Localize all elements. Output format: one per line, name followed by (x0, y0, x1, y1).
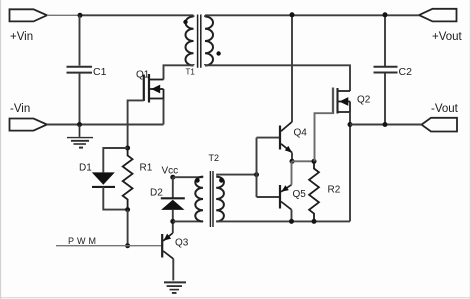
resistor R1 (123, 148, 133, 210)
node Vcc junction (170, 175, 175, 180)
node C2 bottom junction (383, 122, 388, 127)
wire bottom rail up to Q2 source (349, 125, 351, 222)
wire Q3 collector down to ground (172, 259, 174, 281)
wire Q1 gate to gate node (128, 100, 144, 148)
svg-text:T1: T1 (186, 68, 196, 77)
capacitor C1 (67, 67, 93, 73)
wire C1 bottom lead (79, 74, 81, 125)
wire Q5 emitter up (291, 161, 293, 185)
Q3 emitter arrow (164, 234, 172, 241)
transistor Q3 (PNP) (162, 233, 173, 259)
wire junction to T2 primary bottom (173, 220, 203, 222)
wire Q3 emitter up to D2 node (172, 221, 174, 233)
svg-text:D2: D2 (150, 188, 163, 199)
T1 secondary lead stubs (204, 15, 206, 65)
ground (Q3) (164, 282, 186, 294)
node D2/Q3/T2 junction (170, 219, 175, 224)
terminal +Vout (419, 9, 457, 22)
T2 primary polarity dot (195, 178, 200, 183)
wire to Q5 base (257, 196, 281, 198)
wire C2 bottom lead (384, 74, 386, 125)
transformer T2 secondary winding (216, 177, 224, 222)
wire -Vin rail (47, 124, 164, 126)
svg-text:+Vin: +Vin (10, 31, 33, 43)
T1 core (198, 15, 201, 68)
Q2 body-diode arrow (339, 97, 348, 106)
node C2 top junction (383, 12, 388, 17)
wire top rail left (junction to T1 primary) (80, 14, 194, 16)
wire Q1 source to -Vin rail (163, 99, 165, 125)
wire (469, 0, 471, 299)
wire base bus vertical (256, 138, 258, 197)
transformer T1 primary winding (185, 17, 193, 66)
transistor Q1 (MOSFET) (144, 74, 164, 103)
wire -Vout rail (350, 124, 422, 126)
wire Vcc down to D2 cathode (172, 177, 174, 197)
node junction -Vin/C1/ground (77, 122, 82, 127)
wire C2 top lead (384, 15, 386, 66)
transformer T2 primary winding (195, 177, 203, 222)
wire Q4 collector to +Vout rail (291, 15, 293, 123)
node Q4 collector junction top rail (290, 12, 295, 17)
T2 secondary polarity dot (219, 178, 224, 183)
wire gate node to D1 (103, 148, 127, 172)
Q5 emitter arrow (281, 185, 289, 192)
T1 primary lead stubs (193, 15, 195, 65)
wire Q5 collector to bottom rail (291, 210, 293, 222)
node Q4/Q5 emitter junction (290, 159, 295, 164)
node PWM junction (125, 243, 130, 248)
wire T1 secondary bottom to Q2 drain (205, 65, 350, 91)
node Q5 collector junction (289, 219, 294, 224)
wire Q2 gate down to R2 top (315, 113, 334, 161)
transistor Q2 (MOSFET) (333, 88, 350, 115)
node junction +Vin/C1 (78, 13, 83, 18)
wire to Q4 base (257, 137, 281, 139)
ground (input) (67, 125, 93, 149)
wire +Vin to top rail junction (47, 14, 80, 16)
transistor Q4 (NPN) (280, 122, 292, 153)
svg-text:PWM: PWM (68, 236, 99, 246)
svg-text:Vcc: Vcc (162, 166, 179, 177)
wire T1 primary bottom to Q1 drain (164, 65, 194, 79)
capacitor C2 (374, 67, 398, 73)
T1 primary polarity dot (183, 20, 187, 24)
T2 primary stubs (202, 177, 204, 222)
wire PWM input line (56, 245, 162, 247)
wire D2 anode to Q3 emitter node (172, 210, 174, 222)
wire Vcc to T2 primary top (173, 176, 203, 178)
node Q2 source junction (348, 122, 353, 127)
node R2 bottom junction (312, 219, 317, 224)
diode D1 (92, 172, 115, 184)
transformer T1 secondary winding (205, 17, 213, 66)
svg-text:C2: C2 (399, 66, 413, 78)
svg-text:-Vout: -Vout (431, 103, 459, 115)
terminal -Vout (422, 118, 458, 132)
svg-text:D1: D1 (79, 163, 92, 174)
wire T2 secondary top to base bus (216, 174, 256, 176)
wire C1 top lead (79, 15, 81, 65)
Q1 body-diode arrow (151, 85, 160, 94)
wire Q2 source to -Vout rail (349, 112, 351, 125)
svg-text:R1: R1 (140, 163, 153, 174)
terminal -Vin (10, 119, 48, 131)
terminal +Vin (10, 9, 48, 21)
svg-text:Q5: Q5 (293, 189, 307, 200)
svg-text:T2: T2 (209, 153, 220, 163)
T1 secondary polarity dot (216, 51, 220, 55)
svg-text:Q1: Q1 (136, 70, 150, 81)
wire D1 cathode to bottom junction (103, 187, 127, 210)
wire (0, 297, 471, 299)
svg-text:Q4: Q4 (294, 128, 308, 139)
node gate drive junction (125, 146, 130, 151)
wire (0, 0, 2, 299)
T2 core (210, 171, 213, 227)
Q4 emitter arrow (285, 146, 292, 153)
wire T2 secondary bottom rail (216, 220, 350, 222)
wire emitter rail to R2 (292, 160, 314, 162)
svg-text:R2: R2 (328, 185, 341, 196)
node R2 top junction (312, 159, 317, 164)
transistor Q5 (PNP) (280, 185, 292, 210)
diode D2 (161, 197, 185, 199)
wire Q4 emitter to emitter rail (291, 153, 293, 162)
resistor R2 (309, 161, 319, 221)
svg-text:Q2: Q2 (357, 95, 371, 106)
node base bus junction (254, 172, 259, 177)
svg-text:C1: C1 (93, 66, 107, 78)
svg-text:-Vin: -Vin (10, 103, 30, 115)
wire bottom junction to PWM line (127, 210, 129, 246)
svg-text:+Vout: +Vout (432, 31, 463, 43)
node R1/D1 bottom junction (125, 207, 130, 212)
wire top rail right (T1 secondary to +Vout) (205, 14, 419, 16)
svg-text:Q3: Q3 (175, 238, 189, 249)
